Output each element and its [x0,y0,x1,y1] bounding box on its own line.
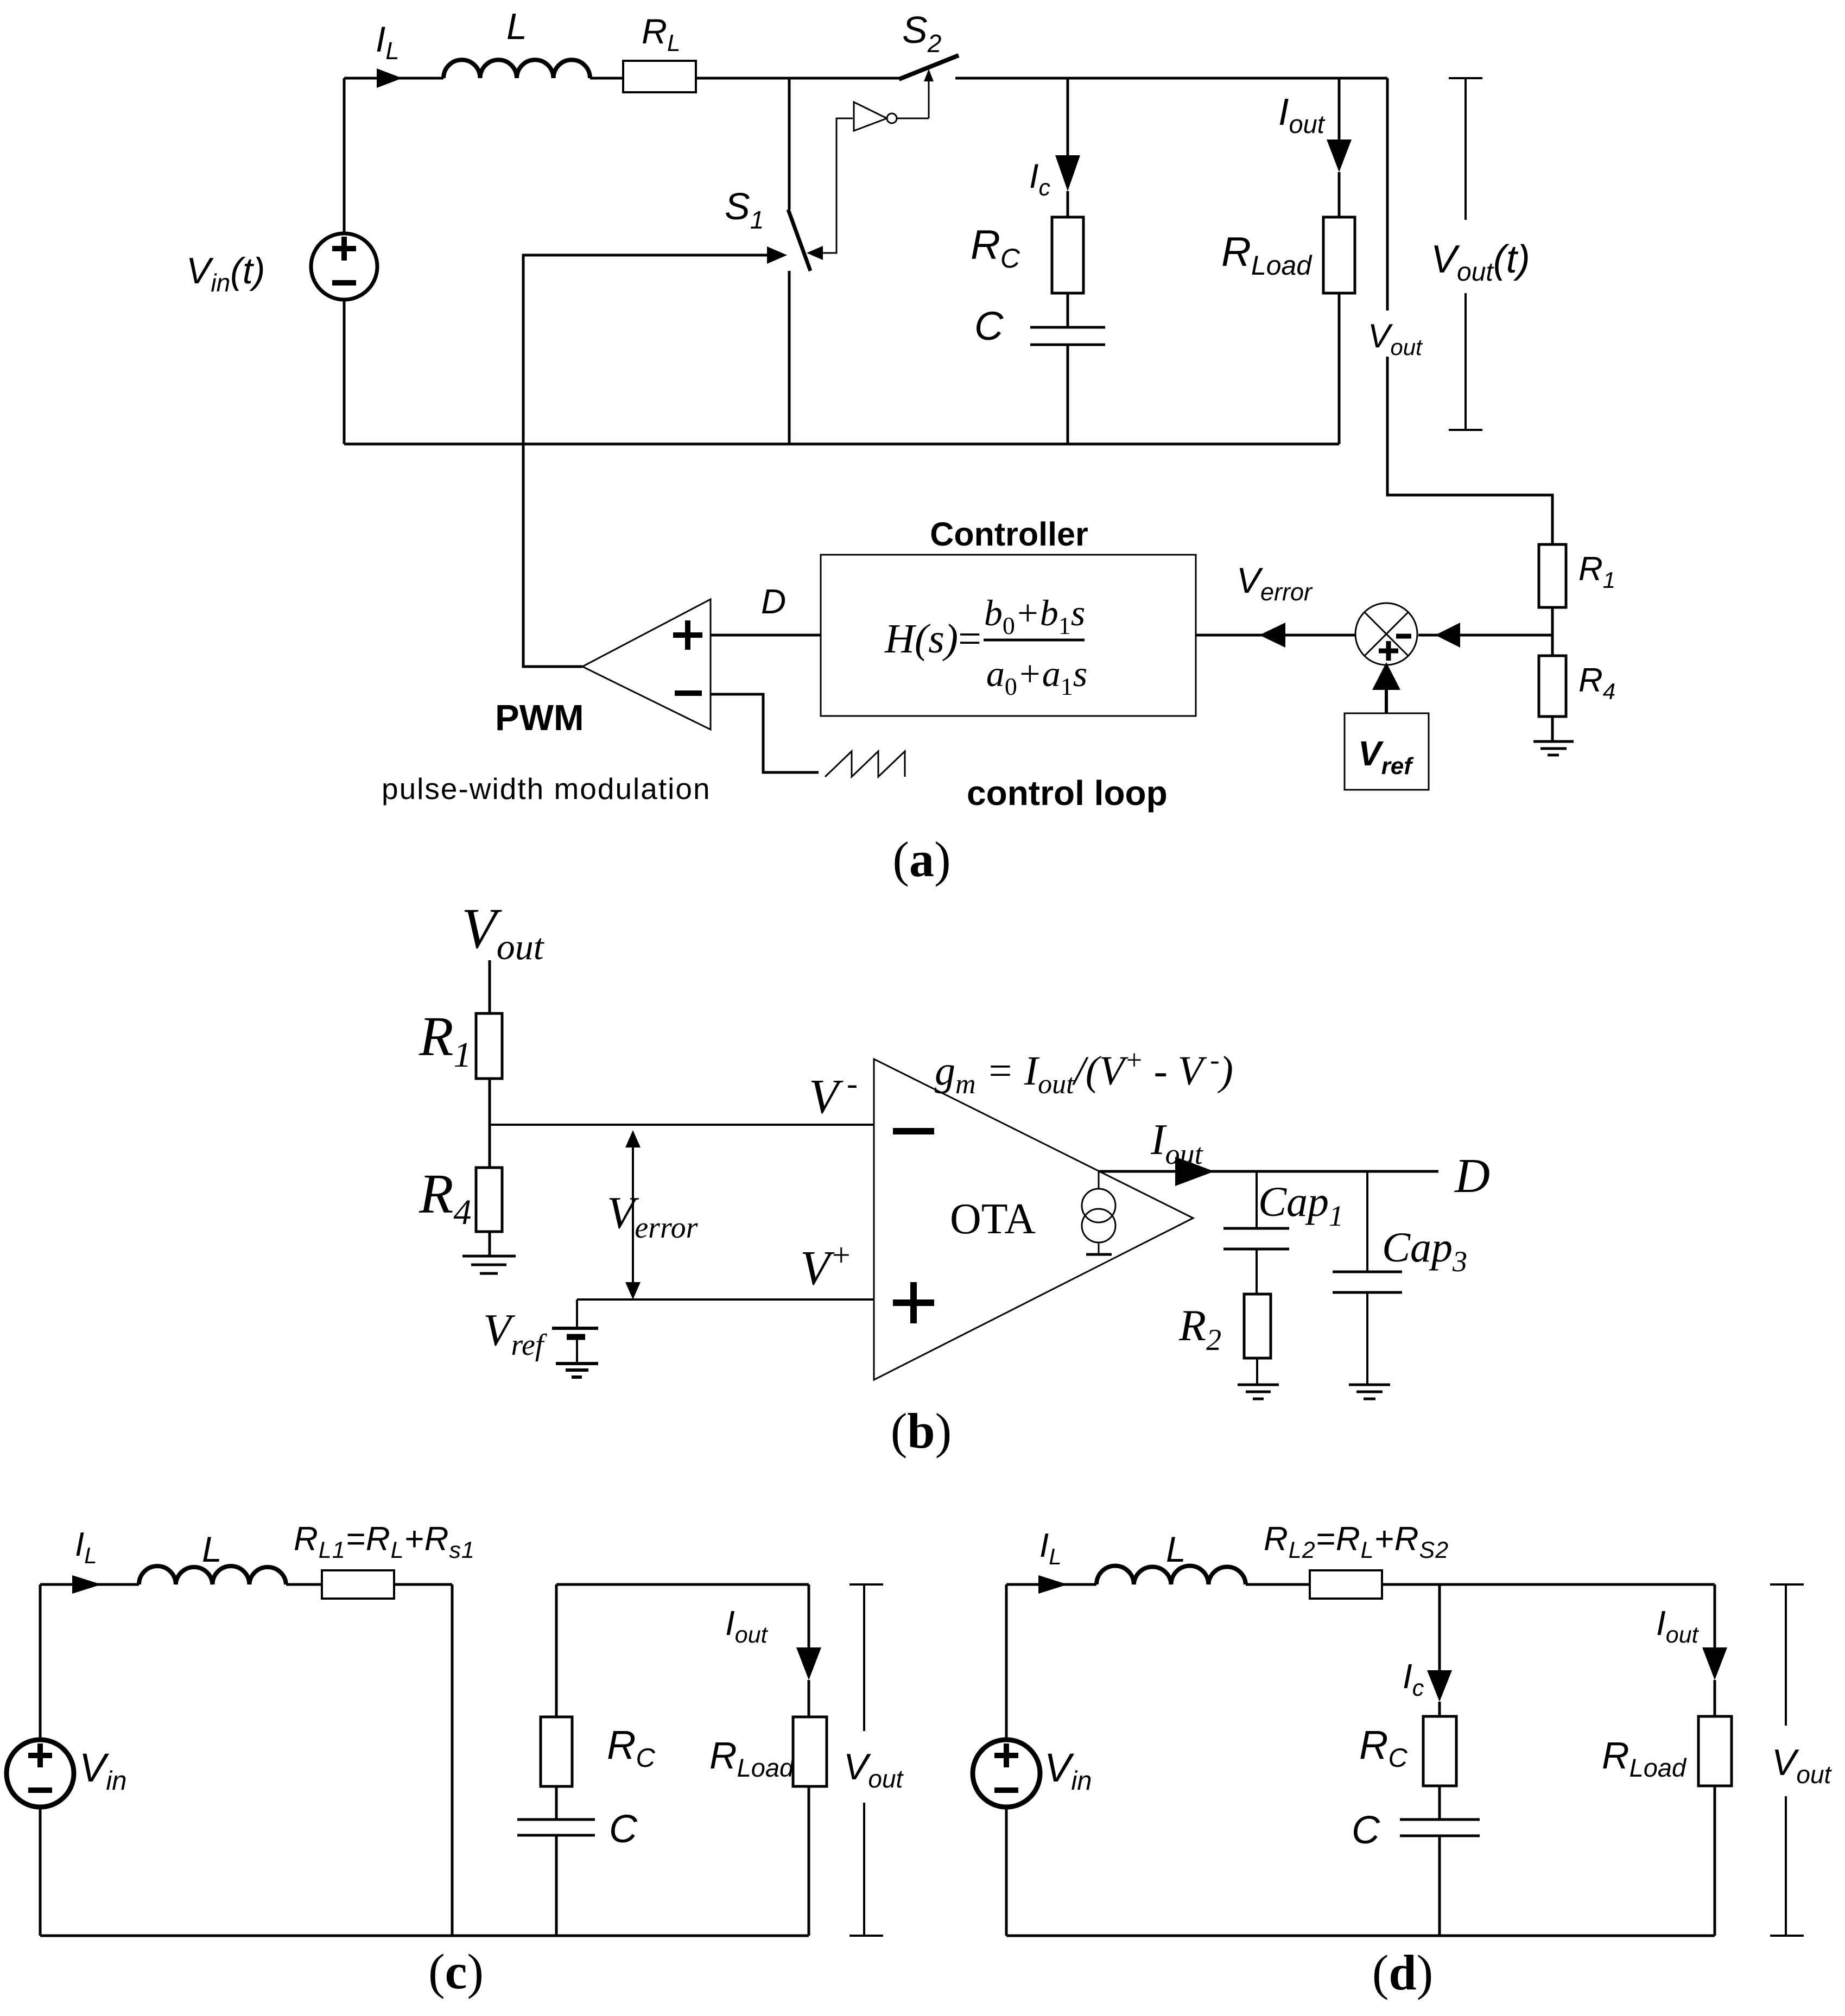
svg-text:control loop: control loop [967,774,1168,813]
svg-text:C: C [1352,1809,1380,1852]
svg-text:OTA: OTA [950,1195,1036,1243]
svg-text:Controller: Controller [930,516,1088,553]
svg-text:L: L [506,6,527,47]
svg-text:L: L [202,1529,222,1569]
svg-text:(b): (b) [891,1403,952,1459]
svg-text:D: D [761,582,786,621]
svg-text:pulse-width modulation: pulse-width modulation [382,772,711,806]
svg-text:(d): (d) [1372,1945,1433,2000]
svg-text:gm = Iout/(V+ - V -): gm = Iout/(V+ - V -) [935,1045,1233,1100]
svg-text:PWM: PWM [495,698,584,738]
svg-text:(c): (c) [428,1944,484,1999]
svg-text:C: C [974,303,1004,348]
svg-text:D: D [1454,1149,1490,1203]
svg-text:(a): (a) [892,832,950,887]
svg-text:C: C [609,1808,638,1851]
svg-text:H(s)=: H(s)= [884,616,981,662]
svg-text:L: L [1166,1529,1186,1569]
